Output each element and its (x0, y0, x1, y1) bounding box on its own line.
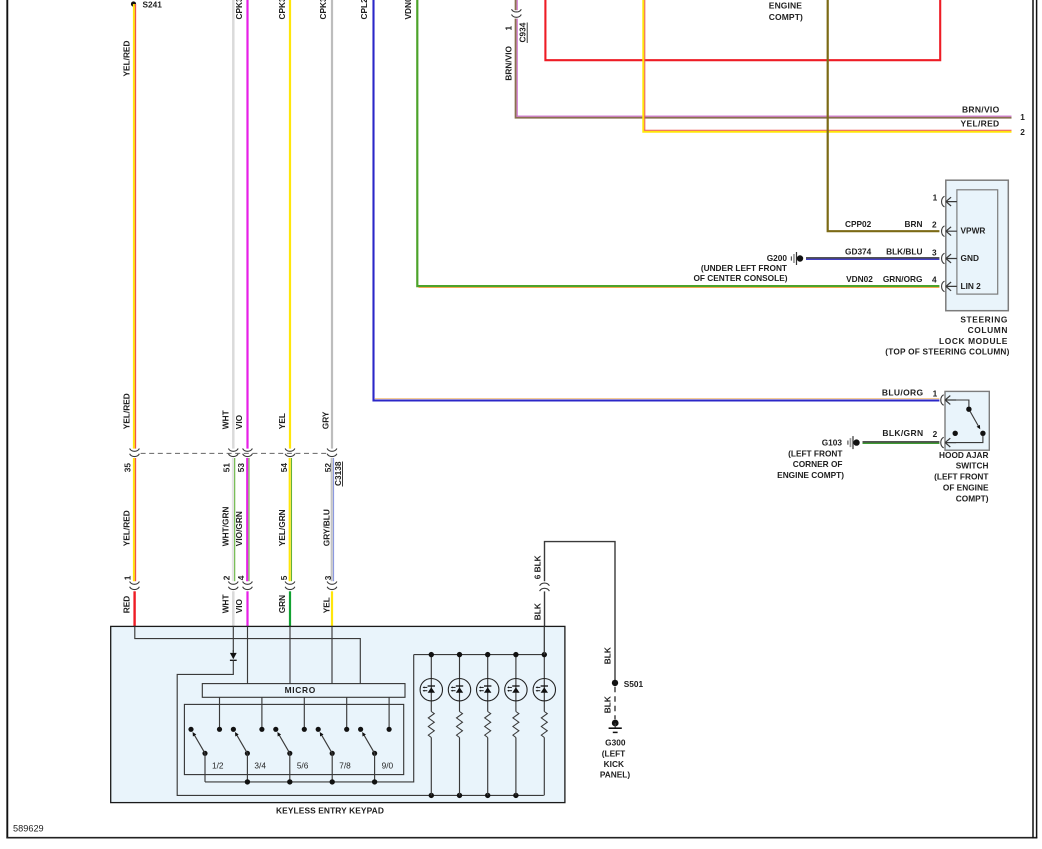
keypad switch 9/0 (358, 727, 392, 782)
wire BLK dashed to ground G300 (614, 687, 616, 719)
svg-text:LOCK MODULE: LOCK MODULE (939, 336, 1008, 346)
svg-text:VIO/GRN: VIO/GRN (234, 511, 244, 546)
wire WHT/GRN middle segment (232, 458, 234, 581)
svg-text:54: 54 (279, 463, 289, 473)
svg-text:BLK: BLK (603, 647, 613, 664)
keypad switch 3/4 (231, 727, 265, 782)
svg-text:4: 4 (236, 575, 246, 580)
wire YEL/RED middle segment (133, 458, 135, 581)
connector C3138 pin 35 (130, 449, 140, 457)
wire VIO/GRN middle segment (246, 458, 248, 581)
hood switch pin 2 (941, 437, 944, 448)
connector C3138 pin 53 (243, 449, 253, 457)
keypad switch 7/8 (316, 727, 350, 782)
svg-text:C3138: C3138 (333, 461, 343, 486)
ground G300 (612, 720, 619, 727)
svg-text:YEL/RED: YEL/RED (122, 393, 132, 429)
keypad internal wire from pin 4 (VIO) to MICRO (247, 626, 249, 683)
svg-text:HOOD AJAR: HOOD AJAR (939, 450, 988, 460)
svg-text:CPK33: CPK33 (277, 0, 287, 20)
svg-text:BLK: BLK (603, 696, 613, 713)
svg-text:1: 1 (123, 575, 133, 580)
svg-text:COMPT): COMPT) (956, 493, 989, 503)
wire MICRO output 3 (303, 697, 305, 729)
switch matrix box (184, 704, 403, 774)
svg-text:ENGINE: ENGINE (769, 0, 802, 10)
svg-text:G200: G200 (767, 253, 788, 263)
svg-text:KICK: KICK (604, 759, 624, 769)
svg-text:51: 51 (222, 463, 232, 473)
svg-text:COLUMN: COLUMN (968, 325, 1008, 335)
svg-text:1/2: 1/2 (212, 760, 224, 770)
svg-text:VIO: VIO (234, 598, 244, 613)
connector C934 pin 1 (515, 0, 517, 10)
wire BRN/VIO vertical + horizontal to right edge pin 1 (516, 19, 1012, 118)
svg-text:2: 2 (1020, 127, 1025, 137)
svg-text:(LEFT: (LEFT (602, 748, 626, 758)
keypad internal wire from pin 2 (WHT) through diode to LED/switch common (232, 626, 234, 653)
switch common bus (205, 655, 414, 782)
page border bottom (6, 837, 1037, 839)
node: resistor-common junction dots (429, 793, 434, 798)
svg-text:589629: 589629 (13, 823, 44, 833)
keypad internal wire from pin 5 (GRN) to MICRO (289, 626, 291, 683)
svg-text:1: 1 (933, 388, 938, 398)
hood switch pin 1 (941, 395, 944, 406)
svg-text:S501: S501 (624, 679, 644, 689)
svg-text:VDN02: VDN02 (403, 0, 413, 20)
keypad U2: keyless entry keypad box (111, 626, 565, 802)
LED indicator 4 with resistor (505, 655, 527, 796)
svg-text:C934: C934 (518, 22, 528, 42)
lock module inner box (957, 190, 998, 294)
svg-text:COMPT): COMPT) (769, 12, 803, 22)
wire YEL/GRN middle segment (289, 458, 291, 581)
MICRO block (202, 684, 405, 698)
svg-text:G300: G300 (605, 738, 626, 748)
svg-text:GRN: GRN (277, 595, 287, 613)
ground G200 (791, 256, 792, 260)
svg-text:OF ENGINE: OF ENGINE (943, 482, 989, 492)
svg-text:VPWR: VPWR (961, 226, 986, 236)
page border right (double) (1032, 0, 1034, 838)
connector C3138 dashed boundary (141, 452, 327, 454)
svg-text:2: 2 (222, 575, 232, 580)
connector C3138 pin 51 (228, 449, 238, 457)
svg-text:BLU/ORG: BLU/ORG (882, 388, 924, 398)
keypad internal wire from pin 3 (YEL) to MICRO (331, 626, 333, 683)
page border left (6, 0, 8, 838)
wire BLK/GRN from G103 to hood ajar switch pin 2 (847, 441, 848, 445)
wire YEL/RED (circuit from S241) vertical segment (133, 4, 135, 449)
svg-text:GD374: GD374 (845, 247, 872, 257)
module U1: steering column lock module outer box (946, 180, 1009, 311)
svg-text:6 BLK: 6 BLK (532, 555, 542, 579)
svg-text:3: 3 (323, 575, 333, 580)
svg-text:YEL/RED: YEL/RED (122, 41, 132, 77)
svg-text:WHT: WHT (221, 594, 231, 613)
svg-text:3/4: 3/4 (254, 760, 266, 770)
svg-text:MICRO: MICRO (285, 685, 316, 695)
svg-text:(LEFT FRONT: (LEFT FRONT (788, 448, 842, 458)
svg-text:1: 1 (504, 26, 514, 31)
svg-text:BRN: BRN (905, 219, 923, 229)
svg-text:LIN 2: LIN 2 (961, 281, 982, 291)
svg-text:2: 2 (933, 429, 938, 439)
svg-text:53: 53 (236, 463, 246, 473)
svg-text:9/0: 9/0 (382, 760, 394, 770)
svg-text:STEERING: STEERING (960, 314, 1008, 324)
svg-text:(TOP OF STEERING COLUMN): (TOP OF STEERING COLUMN) (885, 347, 1009, 357)
svg-text:GRY/BLU: GRY/BLU (322, 509, 332, 546)
svg-text:WHT/GRN: WHT/GRN (221, 507, 231, 547)
keypad switch 5/6 (273, 727, 307, 782)
svg-text:GRN/ORG: GRN/ORG (883, 274, 923, 284)
wire MICRO output 4 (346, 697, 348, 729)
lock module pin 3 GND (942, 253, 945, 264)
svg-text:1: 1 (1020, 112, 1025, 122)
svg-text:3: 3 (932, 248, 937, 258)
splice S501 (612, 680, 618, 686)
svg-text:BRN/VIO: BRN/VIO (962, 105, 1000, 115)
svg-text:1: 1 (933, 192, 938, 202)
svg-text:YEL: YEL (277, 413, 287, 429)
wire VIO into keypad (246, 591, 248, 626)
wire BLK from keypad pin 6 to splice S501 (544, 591, 546, 626)
wire YEL/RED vertical + horizontal to right edge pin 2 (643, 0, 1011, 132)
svg-text:YEL: YEL (322, 597, 332, 613)
svg-text:CPK31: CPK31 (234, 0, 244, 20)
svg-text:35: 35 (123, 463, 133, 473)
svg-text:(UNDER LEFT FRONT: (UNDER LEFT FRONT (701, 263, 787, 273)
diode D1 (230, 653, 237, 659)
svg-text:VIO: VIO (234, 414, 244, 429)
svg-text:WHT: WHT (221, 410, 231, 429)
wire BLK/BLU (circuit GD374) to lock module pin 3 (GND) (806, 257, 939, 259)
svg-text:BRN/VIO: BRN/VIO (504, 45, 514, 80)
svg-text:GND: GND (961, 253, 979, 263)
LED anode bus (414, 654, 545, 656)
svg-text:2: 2 (932, 220, 937, 230)
svg-text:SWITCH: SWITCH (956, 461, 989, 471)
svg-text:ENGINE COMPT): ENGINE COMPT) (777, 470, 844, 480)
svg-text:KEYLESS ENTRY KEYPAD: KEYLESS ENTRY KEYPAD (276, 805, 384, 815)
connector C3138 pin 54 (285, 449, 295, 457)
wire WHT into keypad (232, 591, 235, 626)
svg-text:YEL/RED: YEL/RED (961, 118, 1000, 128)
wire RED into keypad (133, 591, 135, 626)
wire WHT (circuit CPK) vertical segment (232, 0, 235, 449)
wire MICRO output 5 (388, 697, 390, 729)
wire MICRO output 1 (219, 697, 221, 729)
svg-text:YEL/RED: YEL/RED (122, 510, 132, 546)
LED indicator 3 with resistor (477, 655, 499, 796)
svg-text:YEL/GRN: YEL/GRN (277, 509, 287, 546)
LED indicator 1 with resistor (420, 655, 442, 796)
connector C3138 pin 52, label C3138 (327, 449, 337, 457)
svg-text:4: 4 (932, 275, 937, 285)
svg-text:CORNER OF: CORNER OF (793, 459, 843, 469)
lock module pin 1 (942, 196, 945, 207)
svg-text:5/6: 5/6 (297, 760, 309, 770)
lock module pin 2 VPWR (942, 226, 945, 237)
wire BRN (circuit CPP02) vertical + horizontal to lock module pin 2 (VPWR) (828, 0, 940, 231)
wire YEL into keypad (331, 591, 333, 626)
svg-text:BLK/BLU: BLK/BLU (886, 247, 922, 257)
svg-text:PANEL): PANEL) (600, 770, 631, 780)
hood ajar switch S1 box (945, 391, 989, 450)
svg-text:BLK: BLK (532, 603, 542, 620)
svg-text:CPL22: CPL22 (359, 0, 369, 20)
wire BLK inside keypad to pin 6 (543, 626, 545, 654)
svg-text:OF CENTER CONSOLE): OF CENTER CONSOLE) (693, 273, 787, 283)
wire MICRO output 2 (261, 697, 263, 729)
svg-text:RED: RED (122, 596, 132, 614)
svg-text:5: 5 (279, 575, 289, 580)
svg-text:(LEFT FRONT: (LEFT FRONT (934, 472, 988, 482)
splice S241 (131, 1, 136, 6)
LED indicator 2 with resistor (448, 655, 470, 796)
svg-text:GRY: GRY (321, 411, 331, 429)
hood switch internal contacts (956, 400, 969, 407)
keypad switch 1/2 (188, 727, 222, 782)
svg-text:VDN02: VDN02 (846, 274, 873, 284)
svg-text:CPP02: CPP02 (845, 219, 872, 229)
keypad internal wire from pin 1 (RED) to MICRO (135, 626, 360, 683)
red power bus (partial component outline) (545, 0, 940, 60)
svg-text:7/8: 7/8 (339, 760, 351, 770)
LED indicator 5 with resistor (533, 655, 555, 796)
wire GRN into keypad (289, 591, 291, 626)
svg-text:S241: S241 (143, 0, 163, 10)
wire GRY/BLU middle segment (331, 458, 333, 581)
svg-text:BLK/GRN: BLK/GRN (882, 428, 923, 438)
svg-text:CPK35: CPK35 (318, 0, 328, 20)
svg-text:G103: G103 (822, 437, 843, 447)
lock module pin 4 LIN 2 (942, 281, 945, 292)
